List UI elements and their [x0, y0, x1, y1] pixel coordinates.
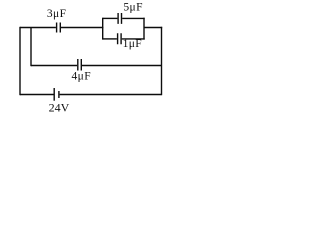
wire middle-left segment: [31, 65, 77, 67]
wire bottom-left segment: [20, 94, 54, 96]
wire bottom-right segment: [60, 94, 162, 96]
wire top middle segment: [61, 27, 103, 29]
battery 24V short plate: [58, 91, 60, 98]
wire 1uF branch left: [103, 38, 117, 40]
wire top-left segment: [20, 27, 56, 29]
wire top-right segment: [144, 27, 162, 29]
node right of parallel box: [143, 18, 145, 40]
capacitor 5uF plates: [118, 13, 121, 24]
svg-text:5μF: 5μF: [123, 2, 143, 14]
wire junction drop: [30, 28, 32, 67]
wire right vertical: [161, 27, 163, 95]
wire 1uF branch right: [122, 38, 145, 40]
battery 24V long plate: [53, 88, 55, 101]
capacitor 1uF plates: [118, 33, 122, 44]
svg-text:24V: 24V: [49, 101, 70, 115]
svg-text:4μF: 4μF: [72, 71, 92, 83]
wire middle-right segment: [82, 65, 162, 67]
wire 5uF branch right: [122, 17, 145, 19]
wire left vertical: [19, 27, 21, 95]
svg-text:1μF: 1μF: [123, 38, 143, 50]
wire 5uF branch left: [103, 17, 118, 19]
capacitor 4uF plates: [78, 59, 82, 71]
capacitor 3uF plates: [57, 23, 61, 33]
svg-text:3μF: 3μF: [47, 8, 67, 20]
node left of parallel box: [102, 18, 104, 40]
